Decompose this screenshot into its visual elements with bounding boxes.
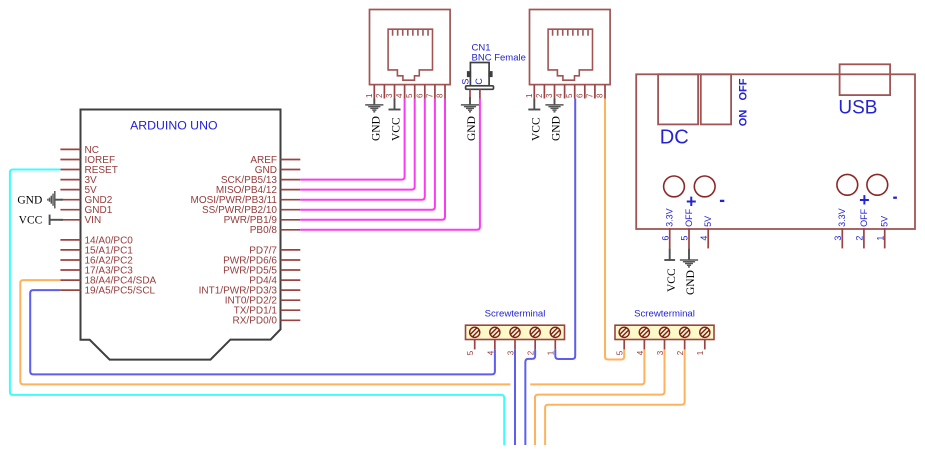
pin GND of U1: [281, 169, 301, 171]
pin RESET of U1: [60, 169, 80, 171]
ST2 body: [615, 325, 714, 339]
svg-text:5: 5: [680, 236, 690, 241]
svg-text:1: 1: [875, 236, 885, 241]
RJ45 J2 pin 4: [564, 85, 566, 99]
ST2 screws: [619, 327, 710, 337]
svg-text:VIN: VIN: [85, 215, 102, 226]
DC jack rect 1: [658, 74, 698, 124]
svg-text:6: 6: [575, 93, 584, 98]
svg-text:GND: GND: [551, 116, 563, 141]
wire VIN to VCC: [50, 219, 63, 221]
pin GND1 of U1: [60, 209, 80, 211]
CN1 pin C stub: [479, 89, 481, 98]
wire J2 pin3 to ground: [554, 99, 556, 105]
wire ST1.3 down (blue): [514, 350, 516, 446]
svg-text:GND: GND: [466, 116, 478, 141]
svg-text:7: 7: [585, 93, 594, 98]
svg-text:2: 2: [855, 236, 865, 241]
wire ST2.3 down (orange): [535, 350, 665, 446]
svg-text:S: S: [460, 79, 470, 85]
svg-text:GND: GND: [371, 116, 383, 141]
svg-text:Screwterminal: Screwterminal: [485, 309, 546, 320]
ST1 pin 1: [554, 340, 556, 350]
svg-text:GND: GND: [685, 270, 697, 295]
pin 15/A1/PC1 of U1: [60, 249, 80, 251]
wire J1.4-SCK13 (magenta): [300, 99, 404, 180]
RJ45 J1 contacts: [393, 29, 428, 36]
wire CN1 S to ground: [469, 97, 471, 105]
RJ45 J1 body: [370, 10, 451, 85]
pin 14/A0/PC0 of U1: [60, 239, 80, 241]
op-amp U1 : ARDUINO UNO module body: [81, 110, 281, 360]
wire SDA to ST2.4 segment a (orange): [20, 280, 510, 384]
pin 17/A3/PC3 of U1: [60, 269, 80, 271]
RJ45 J2 pin 6: [584, 85, 586, 99]
ST1 body: [466, 325, 565, 339]
RJ45 J1 pin 5: [414, 85, 416, 99]
ST2 pin 5: [623, 340, 625, 350]
wire SDA to ST2.4 segment b (orange): [530, 350, 644, 385]
ST1 pin 5: [474, 340, 476, 350]
CN1 flange: [466, 86, 494, 90]
svg-text:7: 7: [425, 93, 434, 98]
svg-text:1: 1: [696, 350, 705, 355]
wire J1.5-MISO12 (magenta): [300, 99, 414, 190]
RJ45 J1 pin 6: [424, 85, 426, 99]
svg-text:PB0/8: PB0/8: [250, 225, 278, 236]
RJ45 J2 body: [530, 10, 611, 85]
svg-text:3.3V: 3.3V: [665, 208, 675, 227]
CN1 pin S stub: [469, 89, 471, 97]
pin GND2 of U1: [60, 199, 80, 201]
wire J2 pin1 to VCC: [533, 99, 535, 110]
PS1 pin 5: [688, 228, 690, 248]
RJ45 J2 contacts: [553, 29, 588, 36]
svg-text:USB: USB: [838, 98, 877, 119]
RJ45 J2 pin 8: [604, 85, 606, 99]
ST2 pin 2: [684, 340, 686, 350]
svg-text:GND: GND: [17, 194, 42, 206]
svg-text:VCC: VCC: [391, 117, 403, 141]
svg-text:1: 1: [365, 93, 374, 98]
svg-text:VCC: VCC: [666, 268, 678, 292]
RJ45 J2 pin 7: [594, 85, 596, 99]
svg-text:VCC: VCC: [19, 215, 43, 227]
ground at J1 pin1: [365, 105, 383, 112]
pin SS/PWR/PB2/10 of U1: [281, 209, 301, 211]
svg-text:5: 5: [466, 350, 475, 355]
svg-text:OFF: OFF: [684, 208, 694, 226]
wire CN1.C-PB0.8 (magenta): [300, 99, 480, 230]
wire PS1 pin6 to VCC: [669, 248, 671, 260]
USB connector: [840, 64, 891, 95]
svg-text:DC: DC: [660, 127, 689, 149]
ST1 screws: [470, 327, 561, 337]
svg-text:3: 3: [385, 93, 394, 98]
ST1 pin 2: [534, 340, 536, 350]
pin NC of U1: [60, 148, 80, 150]
svg-text:19/A5/PC5/SCL: 19/A5/PC5/SCL: [85, 286, 156, 297]
wire J1.6-MOSI11 (magenta): [300, 99, 425, 200]
pin PWR/PD6/6 of U1: [281, 259, 301, 261]
label minus right: [893, 197, 897, 199]
svg-text:2: 2: [375, 93, 384, 98]
pin VIN of U1: [60, 219, 80, 221]
RJ45 J1 pin 4: [404, 85, 406, 99]
svg-text:1: 1: [525, 93, 534, 98]
pin SCK/PB5/13 of U1: [281, 179, 301, 181]
RJ45 J1 pin 2: [383, 85, 385, 99]
ST2 pin 3: [664, 340, 666, 350]
svg-text:4: 4: [699, 236, 709, 241]
svg-text:3: 3: [545, 93, 554, 98]
PS1 right output circles: [837, 174, 858, 195]
svg-text:ARDUINO UNO: ARDUINO UNO: [130, 118, 217, 132]
svg-text:+: +: [686, 192, 697, 212]
ground at CN1 S: [461, 105, 479, 112]
VCC supply bar at J2 pin1: [528, 109, 540, 111]
svg-text:5V: 5V: [703, 216, 713, 227]
pin 5V of U1: [60, 189, 80, 191]
svg-text:4: 4: [555, 93, 564, 98]
ground at J2 pin3: [545, 105, 563, 112]
RJ45 J2 pin 3: [554, 85, 556, 99]
wire ST1.1 to J2.5 (blue): [555, 99, 575, 360]
RJ45 J1 pin 8: [444, 85, 446, 99]
pin PWR/PD5/5 of U1: [281, 269, 301, 271]
svg-text:BNC Female: BNC Female: [472, 52, 526, 63]
wire J1 pin1 to ground: [373, 99, 375, 105]
RJ45 J2 pin 1: [533, 85, 535, 99]
svg-text:Screwterminal: Screwterminal: [634, 309, 695, 320]
wire SCL to ST1.4 (blue): [30, 290, 495, 374]
svg-text:2: 2: [535, 93, 544, 98]
svg-text:ON OFF: ON OFF: [738, 78, 750, 126]
wire J1.8-PB1.9 (magenta): [300, 99, 445, 220]
RJ45 J2 pin 2: [543, 85, 545, 99]
pin 16/A2/PC2 of U1: [60, 259, 80, 261]
svg-text:5V: 5V: [880, 216, 890, 227]
pin IOREF of U1: [60, 159, 80, 161]
RJ45 J2 socket opening: [548, 29, 592, 80]
ST1 pin 4: [494, 340, 496, 350]
pin PWR/PB1/9 of U1: [281, 219, 301, 221]
svg-text:OFF: OFF: [859, 208, 869, 226]
svg-text:VCC: VCC: [531, 117, 543, 141]
wire GND2 to ground: [55, 199, 63, 201]
svg-text:6: 6: [660, 236, 670, 241]
pin MISO/PB4/12 of U1: [281, 189, 301, 191]
pin PB0/8 of U1: [281, 229, 301, 231]
svg-text:8: 8: [596, 93, 605, 98]
PS1 pin 4: [707, 228, 709, 248]
pin TX/PD1/1 of U1: [281, 309, 301, 311]
RJ45 J1 socket opening: [388, 29, 432, 80]
svg-text:3.3V: 3.3V: [837, 208, 847, 227]
svg-text:C: C: [474, 78, 484, 85]
ST2 pin 4: [643, 340, 645, 350]
CN1 right nub: [489, 72, 492, 77]
pin 3V of U1: [60, 179, 80, 181]
wire ST1.2 down (blue): [525, 350, 535, 446]
pin INT1/PWR/PD3/3 of U1: [281, 289, 301, 291]
svg-text:5: 5: [405, 93, 414, 98]
pin AREF of U1: [281, 159, 301, 161]
pin MOSI/PWR/PB3/11 of U1: [281, 199, 301, 201]
PS1 pin 3: [841, 228, 843, 248]
wire RESET (cyan): [10, 170, 504, 446]
wire J2.8 to ST2.5 (orange): [605, 99, 624, 360]
svg-text:3: 3: [833, 236, 843, 241]
pin RX/PD0/0 of U1: [281, 319, 301, 321]
PS1 left output circles: [664, 176, 685, 197]
VCC supply bar at J1 pin3: [389, 109, 401, 111]
VCC supply bar at U1 VIN: [49, 215, 51, 225]
ground at PS1 pin5: [680, 260, 698, 267]
wire J1.7-SS10 (magenta): [300, 99, 435, 210]
pin 19/A5/PC5/SCL of U1: [60, 289, 80, 291]
ground at U1 GND2: [48, 191, 55, 208]
PS1 pin 2: [863, 228, 865, 248]
svg-text:6: 6: [415, 93, 424, 98]
CN1 body: [470, 63, 489, 86]
RJ45 J2 pin 5: [574, 85, 576, 99]
svg-text:4: 4: [395, 93, 404, 98]
label minus left: [720, 200, 724, 202]
PS1 pin 6: [669, 228, 671, 248]
VCC supply bar at PS1 pin6: [664, 259, 675, 261]
svg-text:RX/PD0/0: RX/PD0/0: [233, 316, 278, 327]
pin 18/A4/PC4/SDA of U1: [60, 279, 80, 281]
power module PS1 body: [636, 74, 915, 229]
svg-text:5: 5: [565, 93, 574, 98]
ST1 pin 3: [514, 340, 516, 350]
wire PS1 pin5 to ground: [688, 248, 690, 260]
svg-text:8: 8: [436, 93, 445, 98]
pin INT0/PD2/2 of U1: [281, 299, 301, 301]
ST2 pin 1: [704, 340, 706, 350]
wire J1 pin3 to VCC: [394, 99, 396, 110]
RJ45 J1 pin 7: [434, 85, 436, 99]
RJ45 J1 pin 3: [394, 85, 396, 99]
CN1 left nub: [468, 72, 471, 77]
RJ45 J1 pin 1: [373, 85, 375, 99]
pin PD4/4 of U1: [281, 279, 301, 281]
wire ST2.2 down (orange): [545, 350, 685, 446]
DC jack rect 2: [701, 74, 731, 124]
pin PD7/7 of U1: [281, 249, 301, 251]
PS1 pin 1: [884, 228, 886, 248]
svg-text:+: +: [859, 190, 870, 210]
